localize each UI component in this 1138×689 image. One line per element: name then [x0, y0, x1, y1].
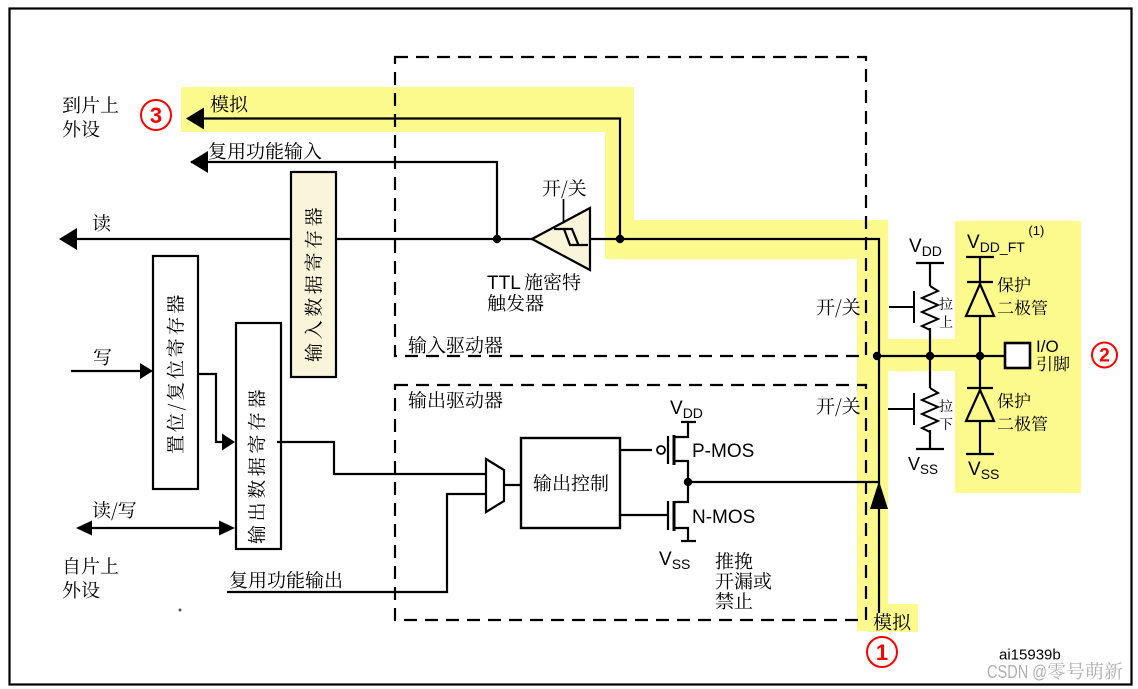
wire: set/reset register to output data register: [198, 374, 224, 442]
highlight: analog path vertical band at schmitt output: [605, 87, 634, 259]
marker circled 2: [1092, 343, 1117, 368]
wire: output control to P-MOS gate with bubble: [620, 449, 652, 451]
wire: read line to schmitt trigger input: [68, 239, 879, 613]
wire: I/O pin net: [877, 355, 1005, 357]
highlight: bottom 模拟 label patch: [868, 604, 918, 632]
svg-text:VSS: VSS: [908, 454, 938, 477]
highlight: analog path horizontal band to right side: [605, 220, 888, 259]
svg-text:1: 1: [876, 640, 888, 665]
label 到片上外设 (to on-chip peripheral): [63, 96, 118, 113]
svg-text:VDD: VDD: [670, 398, 703, 421]
wire: alternate function output to mux: [227, 494, 486, 592]
svg-text:P-MOS: P-MOS: [692, 441, 754, 462]
highlight: analog band along I/O line: [888, 339, 957, 371]
wire: output control to N-MOS gate: [620, 514, 668, 516]
transistor N-MOS Q2: [668, 482, 696, 541]
protection diode D1 (upper 保护二极管): [966, 257, 994, 356]
register box 置位/复位寄存器 (bit set/reset register): [153, 256, 198, 489]
stray dot mark: [179, 609, 182, 612]
node: protection diode junction: [976, 352, 984, 360]
svg-text:TTL: TTL: [487, 273, 521, 294]
wire: alternate function input with left arrow: [191, 162, 497, 239]
pull-down resistor with switch 拉下: [916, 356, 944, 449]
svg-text:VDD: VDD: [909, 236, 942, 259]
marker circled 3: [141, 100, 171, 130]
svg-text:CSDN @: CSDN @: [987, 661, 1047, 682]
wire: mux to output control: [504, 484, 521, 486]
output control box 输出控制: [521, 438, 620, 528]
node: AF-input / read junction: [493, 235, 501, 243]
label 保护 二极管 upper: [997, 277, 1030, 293]
register box 输入数据寄存器 (input data register): [291, 172, 336, 377]
label 拉下: [939, 399, 952, 412]
label 输出驱动器 (output driver): [408, 391, 502, 409]
wire: output data register to mux: [277, 442, 486, 474]
label 保护 二极管 lower: [997, 393, 1030, 409]
marker circled 1: [867, 637, 897, 667]
wire: MOS output to I/O vertical line: [688, 481, 879, 483]
svg-text:VSS: VSS: [659, 549, 690, 572]
input driver dashed box 输入驱动器: [395, 57, 866, 356]
schmitt hysteresis symbol: [554, 229, 588, 245]
label 模拟 bottom: [874, 613, 911, 631]
pull-up resistor with switch 拉上: [916, 263, 944, 356]
highlight: protection-diode / I/O pin box: [955, 221, 1081, 493]
node: analog/I-O junction: [873, 352, 881, 360]
svg-text:N-MOS: N-MOS: [692, 507, 755, 528]
label 写 (write): [94, 349, 111, 366]
highlight: analog path top band (net 模拟 to peripheral): [181, 87, 634, 132]
label 复用功能输出 (alternate function output): [230, 571, 341, 589]
label 读 (read): [93, 214, 110, 231]
node: MOS drain junction: [684, 478, 692, 486]
I/O pin square pad: [1005, 343, 1030, 368]
register box 输出数据寄存器 (output data register): [236, 323, 281, 549]
label 自片上外设 (from on-chip peripheral): [66, 557, 118, 574]
node: analog / schmitt output junction: [616, 235, 624, 243]
TTL schmitt trigger (triangle): [532, 208, 590, 270]
label 拉上: [939, 297, 952, 310]
label 输入驱动器 (input driver): [408, 336, 502, 354]
arrow: analog direction marker on vertical net: [870, 481, 888, 509]
protection diode D2 (lower 保护二极管): [966, 356, 994, 454]
label 开/关 at schmitt enable: [543, 179, 586, 198]
wire: analog net from schmitt output to peripheral, with left arrow: [188, 119, 620, 240]
output driver dashed box 输出驱动器: [395, 385, 866, 620]
wire: read/write double arrow: [83, 527, 228, 529]
highlight: analog path right vertical band: [857, 220, 888, 631]
label 推挽 开漏或 禁止: [716, 552, 753, 569]
label 读/写 (read/write): [93, 501, 136, 520]
svg-text:3: 3: [150, 103, 162, 128]
label 开/关 upper (pull-up switch): [817, 298, 860, 317]
label 复用功能输入 (alternate function input): [209, 142, 322, 160]
svg-text:I/O: I/O: [1036, 337, 1059, 356]
wire: schmitt enable stub: [563, 199, 565, 224]
wire: write arrow into set/reset register: [71, 370, 143, 372]
label 模拟 (analog): [211, 95, 248, 113]
mux (trapezoid selector): [486, 459, 504, 512]
svg-text:2: 2: [1099, 346, 1110, 367]
node: pull resistor junction: [926, 352, 934, 360]
label 开/关 lower (pull-down switch): [817, 397, 860, 416]
transistor P-MOS Q1: [668, 422, 696, 482]
